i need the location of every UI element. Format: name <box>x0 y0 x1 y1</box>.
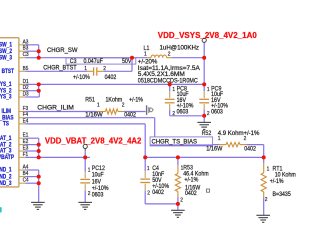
svg-text:2: 2 <box>265 197 268 203</box>
svg-text:CHGR_BTST: CHGR_BTST <box>43 65 76 72</box>
svg-text:GND_3: GND_3 <box>0 180 12 187</box>
svg-text:0603: 0603 <box>211 109 223 116</box>
svg-text:VDD_VSYS_2V8_4V2_1A0: VDD_VSYS_2V8_4V2_1A0 <box>158 31 258 40</box>
svg-text:4.9 Kohm+/-1%: 4.9 Kohm+/-1% <box>218 130 260 137</box>
svg-text:1: 1 <box>88 168 91 174</box>
svg-text:+/-1%: +/-1% <box>184 177 198 184</box>
svg-text:B=3435: B=3435 <box>273 191 292 198</box>
svg-text:1: 1 <box>144 51 147 57</box>
svg-text:2: 2 <box>207 111 210 117</box>
svg-text:1: 1 <box>267 167 270 173</box>
svg-text:BTST: BTST <box>2 68 15 75</box>
svg-text:2: 2 <box>147 190 150 196</box>
svg-text:1: 1 <box>218 136 221 142</box>
svg-text:2: 2 <box>244 136 247 142</box>
svg-text:2: 2 <box>88 191 91 197</box>
svg-text:+/-1%: +/-1% <box>129 96 143 103</box>
svg-text:R52: R52 <box>202 130 212 137</box>
svg-text:1/16W: 1/16W <box>206 145 222 152</box>
svg-text:2: 2 <box>172 111 175 117</box>
svg-text:R51: R51 <box>85 96 95 103</box>
svg-text:2: 2 <box>103 66 106 72</box>
svg-text:1Kohm: 1Kohm <box>106 96 123 103</box>
svg-text:C3: C3 <box>70 58 77 65</box>
svg-text:0402: 0402 <box>105 74 117 81</box>
svg-text:CHGR_SW: CHGR_SW <box>47 47 78 54</box>
svg-text:SYS_3: SYS_3 <box>0 94 12 101</box>
svg-text:2: 2 <box>180 198 183 204</box>
svg-text:2: 2 <box>122 102 125 108</box>
svg-text:50V: 50V <box>122 58 132 65</box>
svg-text:0402: 0402 <box>185 190 197 197</box>
svg-text:0603: 0603 <box>177 109 189 116</box>
svg-text:SW_3: SW_3 <box>0 54 12 61</box>
svg-text:1: 1 <box>172 87 175 93</box>
svg-text:2: 2 <box>168 51 171 57</box>
svg-text:1uH@100KHz: 1uH@100KHz <box>160 45 200 52</box>
svg-text:1: 1 <box>84 66 87 72</box>
svg-text:1: 1 <box>97 102 100 108</box>
svg-text:VDD_VBAT_2V8_4V2_4A2: VDD_VBAT_2V8_4V2_4A2 <box>45 136 142 145</box>
svg-text:0402: 0402 <box>152 189 164 196</box>
svg-text:+/-1%: +/-1% <box>270 178 284 185</box>
svg-text:0402: 0402 <box>244 145 256 152</box>
svg-text:CHGR_TS_BIAS: CHGR_TS_BIAS <box>152 139 198 146</box>
svg-text:1: 1 <box>147 166 150 172</box>
svg-text:0.047uF: 0.047uF <box>84 58 103 65</box>
svg-text:CHGR_ILIM: CHGR_ILIM <box>37 105 74 112</box>
svg-text:1: 1 <box>207 87 210 93</box>
svg-text:VBATP: VBATP <box>0 154 14 161</box>
svg-text:TS: TS <box>3 121 9 128</box>
svg-text:+/-10%: +/-10% <box>73 74 90 81</box>
svg-text:0603: 0603 <box>92 192 104 199</box>
